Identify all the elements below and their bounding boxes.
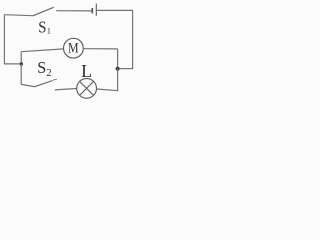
wire: motor branch down to node B — [117, 49, 119, 69]
svg-text:1: 1 — [47, 27, 51, 36]
svg-text:2: 2 — [46, 68, 51, 79]
lamp cross stroke 1 — [80, 81, 94, 95]
motor circle — [64, 38, 84, 58]
background — [0, 0, 139, 102]
wire: stub from node A up to motor branch — [20, 52, 22, 64]
switch S1 blade (open) — [33, 7, 54, 16]
wire: S2 to lamp — [55, 89, 77, 90]
wire: top segment from S1 to battery — [56, 10, 92, 12]
wire: bottom-left segment to S2 pivot — [21, 84, 34, 86]
wire: top-left segment to switch S1 pivot — [4, 15, 33, 16]
battery long (positive) plate — [95, 4, 97, 16]
wire: left side (top-left corner down, then right to left node) — [4, 15, 21, 64]
node A junction dot — [20, 62, 23, 65]
svg-text:S: S — [38, 17, 46, 36]
wire: lamp right to riser — [97, 89, 119, 91]
wire: right side link to node B — [118, 68, 133, 70]
battery short (negative) plate — [91, 8, 93, 13]
svg-text:L: L — [81, 61, 92, 81]
switch S2 blade (open) — [34, 81, 53, 87]
lamp cross stroke 2 — [80, 81, 94, 95]
wire: node A down to bottom branch — [20, 64, 22, 84]
lamp circle — [77, 79, 97, 99]
wire: motor branch left — [21, 49, 63, 52]
node B junction dot — [116, 67, 120, 71]
wire: riser up to node B — [117, 69, 119, 91]
svg-text:S: S — [37, 58, 46, 77]
wire: right side down — [132, 10, 134, 68]
switch S2 blade tip tick — [53, 78, 57, 81]
svg-text:M: M — [68, 41, 79, 57]
wire: battery to top-right corner — [97, 9, 133, 11]
wire: motor branch right — [83, 48, 117, 50]
